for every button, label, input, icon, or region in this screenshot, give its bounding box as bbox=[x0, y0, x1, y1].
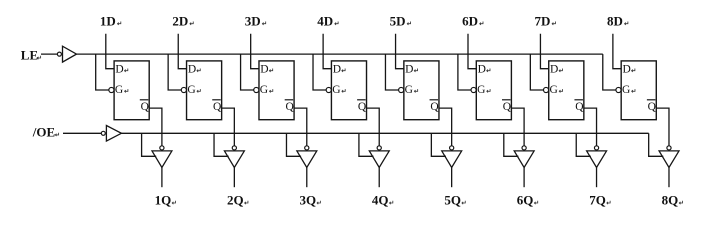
pin label Q-bar (latch 2) bbox=[212, 100, 222, 113]
pin label Q-bar (latch 7) bbox=[574, 100, 584, 113]
svg-text:Q: Q bbox=[430, 101, 439, 113]
tri-state buffer 7 input bubble bbox=[594, 146, 598, 150]
tri-state buffer 3 bbox=[297, 151, 317, 168]
wire /OE net to enable of buffer 3 bbox=[286, 133, 301, 156]
svg-text:Q: Q bbox=[648, 101, 657, 113]
svg-text:D: D bbox=[622, 64, 630, 76]
wire Q-bar of latch 5 to buffer 5 input bbox=[439, 108, 452, 146]
D-latch 7 bbox=[549, 61, 584, 120]
svg-text:5D: 5D bbox=[390, 13, 406, 28]
G input bubble (latch 7) bbox=[543, 87, 548, 92]
D-latch 5 bbox=[404, 61, 439, 120]
wire 3D to D input of latch 3 bbox=[251, 34, 259, 69]
node /OE bbox=[32, 125, 59, 140]
pin label Q-bar (latch 6) bbox=[502, 100, 512, 113]
svg-text:6Q: 6Q bbox=[517, 193, 534, 208]
pin label G (latch 8) bbox=[622, 84, 635, 96]
node 4D bbox=[317, 13, 338, 28]
tri-state buffer 2 input bubble bbox=[232, 146, 236, 150]
wire buffer 2 output to 2Q bbox=[233, 168, 235, 188]
wire LE net bbox=[77, 53, 603, 55]
node 3D bbox=[245, 13, 266, 28]
svg-text:D: D bbox=[405, 64, 413, 76]
wire LE net to G input of latch 8 bbox=[603, 54, 616, 90]
svg-text:7D: 7D bbox=[535, 13, 551, 28]
wire /OE net to enable of buffer 6 bbox=[504, 133, 519, 156]
G input bubble (latch 1) bbox=[109, 87, 114, 92]
pin label Q-bar (latch 3) bbox=[285, 100, 295, 113]
wire buffer 5 output to 5Q bbox=[451, 168, 453, 188]
tri-state buffer 4 bbox=[369, 151, 389, 168]
wire /OE net to enable of buffer 5 bbox=[431, 133, 446, 156]
svg-text:4Q: 4Q bbox=[372, 193, 389, 208]
tri-state buffer 6 bbox=[514, 151, 534, 168]
svg-text:LE: LE bbox=[21, 48, 38, 63]
node 3Q bbox=[299, 193, 320, 208]
node 1D bbox=[100, 13, 121, 28]
node 2Q bbox=[227, 193, 248, 208]
svg-text:G: G bbox=[477, 84, 485, 96]
svg-text:3Q: 3Q bbox=[299, 193, 316, 208]
wire LE net to G input of latch 5 bbox=[385, 54, 398, 90]
pin label D (latch 8) bbox=[622, 64, 634, 76]
wire LE net to G input of latch 1 bbox=[96, 54, 109, 90]
wire /OE net to enable of buffer 7 bbox=[576, 133, 591, 156]
tri-state buffer 8 input bubble bbox=[667, 146, 671, 150]
wire LE net to G input of latch 2 bbox=[168, 54, 181, 90]
svg-text:D: D bbox=[188, 64, 196, 76]
tri-state buffer 4 input bubble bbox=[377, 146, 381, 150]
wire Q-bar of latch 3 to buffer 3 input bbox=[294, 108, 307, 146]
node 6D bbox=[462, 13, 483, 28]
pin label D (latch 5) bbox=[405, 64, 417, 76]
wire LE net to G input of latch 6 bbox=[458, 54, 471, 90]
svg-text:Q: Q bbox=[141, 101, 150, 113]
G input bubble (latch 6) bbox=[471, 87, 476, 92]
G input bubble (latch 3) bbox=[254, 87, 259, 92]
D-latch 8 bbox=[621, 61, 656, 120]
wire /OE net bbox=[121, 132, 648, 134]
G input bubble (latch 8) bbox=[616, 87, 621, 92]
svg-text:G: G bbox=[187, 84, 195, 96]
pin label G (latch 1) bbox=[115, 84, 128, 96]
wire 7D to D input of latch 7 bbox=[540, 34, 548, 69]
tri-state buffer 1 input bubble bbox=[160, 146, 164, 150]
wire Q-bar of latch 7 to buffer 7 input bbox=[584, 108, 597, 146]
pin label Q-bar (latch 5) bbox=[430, 100, 440, 113]
svg-text:5Q: 5Q bbox=[444, 193, 461, 208]
wire buffer 8 output to 8Q bbox=[668, 168, 670, 188]
wire LE label to buffer bbox=[41, 53, 57, 55]
svg-text:D: D bbox=[115, 64, 123, 76]
node 5D bbox=[390, 13, 411, 28]
wire 2D to D input of latch 2 bbox=[178, 34, 186, 69]
tri-state buffer 7 bbox=[587, 151, 607, 168]
wire LE net to G input of latch 3 bbox=[241, 54, 254, 90]
pin label D (latch 3) bbox=[260, 64, 272, 76]
pin label G (latch 3) bbox=[260, 84, 273, 96]
svg-text:G: G bbox=[115, 84, 123, 96]
node 2D bbox=[172, 13, 193, 28]
wire buffer 7 output to 7Q bbox=[596, 168, 598, 188]
node 7Q bbox=[589, 193, 610, 208]
wire LE net to G input of latch 4 bbox=[313, 54, 326, 90]
G input bubble (latch 5) bbox=[399, 87, 404, 92]
svg-text:4D: 4D bbox=[317, 13, 333, 28]
svg-text:8Q: 8Q bbox=[662, 193, 679, 208]
D-latch 2 bbox=[187, 61, 222, 120]
D-latch 6 bbox=[476, 61, 511, 120]
svg-text:/OE: /OE bbox=[32, 125, 55, 140]
svg-text:G: G bbox=[622, 84, 630, 96]
wire buffer 1 output to 1Q bbox=[161, 168, 163, 188]
pin label D (latch 4) bbox=[333, 64, 345, 76]
pin label G (latch 7) bbox=[550, 84, 563, 96]
svg-text:G: G bbox=[332, 84, 340, 96]
buffer /OE bbox=[106, 126, 121, 142]
svg-text:D: D bbox=[478, 64, 486, 76]
wire 5D to D input of latch 5 bbox=[396, 34, 404, 69]
svg-text:2D: 2D bbox=[172, 13, 188, 28]
wire buffer 3 output to 3Q bbox=[306, 168, 308, 188]
D-latch 4 bbox=[331, 61, 366, 120]
node 8Q bbox=[662, 193, 683, 208]
tri-state buffer 2 bbox=[224, 151, 244, 168]
svg-text:G: G bbox=[550, 84, 558, 96]
wire buffer 4 output to 4Q bbox=[378, 168, 380, 188]
svg-text:Q: Q bbox=[503, 101, 512, 113]
tri-state buffer 3 input bubble bbox=[305, 146, 309, 150]
G input bubble (latch 2) bbox=[181, 87, 186, 92]
svg-text:7Q: 7Q bbox=[589, 193, 606, 208]
node 4Q bbox=[372, 193, 393, 208]
wire 6D to D input of latch 6 bbox=[468, 34, 476, 69]
svg-text:D: D bbox=[260, 64, 268, 76]
svg-text:G: G bbox=[405, 84, 413, 96]
node 7D bbox=[535, 13, 556, 28]
wire /OE net to enable of buffer 4 bbox=[359, 133, 374, 156]
svg-text:Q: Q bbox=[285, 101, 294, 113]
svg-text:6D: 6D bbox=[462, 13, 478, 28]
wire /OE net to enable of buffer 2 bbox=[214, 133, 229, 156]
G input bubble (latch 4) bbox=[326, 87, 331, 92]
wire LE net to G input of latch 7 bbox=[530, 54, 543, 90]
svg-text:1Q: 1Q bbox=[155, 193, 172, 208]
node 5Q bbox=[444, 193, 465, 208]
tri-state buffer 6 input bubble bbox=[522, 146, 526, 150]
node LE bbox=[21, 48, 41, 63]
svg-text:Q: Q bbox=[358, 101, 367, 113]
svg-text:G: G bbox=[260, 84, 268, 96]
wire Q-bar of latch 1 to buffer 1 input bbox=[149, 108, 162, 146]
wire buffer 6 output to 6Q bbox=[523, 168, 525, 188]
wire Q-bar of latch 2 to buffer 2 input bbox=[222, 108, 235, 146]
svg-text:2Q: 2Q bbox=[227, 193, 244, 208]
node 1Q bbox=[155, 193, 176, 208]
tri-state buffer 5 bbox=[442, 151, 462, 168]
buffer /OE input bubble bbox=[101, 131, 105, 135]
svg-text:Q: Q bbox=[575, 101, 584, 113]
buffer LE input bubble bbox=[57, 52, 61, 56]
svg-text:3D: 3D bbox=[245, 13, 261, 28]
svg-text:Q: Q bbox=[213, 101, 222, 113]
wire /OE label to buffer bbox=[63, 132, 101, 134]
svg-text:D: D bbox=[333, 64, 341, 76]
wire 8D to D input of latch 8 bbox=[613, 34, 621, 69]
wire Q-bar of latch 6 to buffer 6 input bbox=[511, 108, 524, 146]
wire 4D to D input of latch 4 bbox=[323, 34, 331, 69]
node 8D bbox=[607, 13, 628, 28]
pin label D (latch 6) bbox=[478, 64, 490, 76]
wire /OE net to enable of buffer 8 bbox=[649, 133, 664, 156]
node 6Q bbox=[517, 193, 538, 208]
pin label Q-bar (latch 8) bbox=[647, 100, 657, 113]
pin label G (latch 4) bbox=[332, 84, 345, 96]
pin label G (latch 2) bbox=[187, 84, 200, 96]
pin label D (latch 1) bbox=[115, 64, 127, 76]
wire 1D to D input of latch 1 bbox=[106, 34, 114, 69]
D-latch 3 bbox=[259, 61, 294, 120]
pin label D (latch 7) bbox=[550, 64, 562, 76]
wire Q-bar of latch 8 to buffer 8 input bbox=[656, 108, 669, 146]
pin label Q-bar (latch 1) bbox=[140, 100, 150, 113]
pin label G (latch 5) bbox=[405, 84, 418, 96]
svg-text:8D: 8D bbox=[607, 13, 623, 28]
D-latch 1 bbox=[114, 61, 149, 120]
tri-state buffer 8 bbox=[659, 151, 679, 168]
tri-state buffer 5 input bubble bbox=[450, 146, 454, 150]
wire Q-bar of latch 4 to buffer 4 input bbox=[367, 108, 380, 146]
wire /OE net to enable of buffer 1 bbox=[142, 133, 157, 156]
pin label G (latch 6) bbox=[477, 84, 490, 96]
pin label Q-bar (latch 4) bbox=[357, 100, 367, 113]
pin label D (latch 2) bbox=[188, 64, 200, 76]
svg-text:1D: 1D bbox=[100, 13, 116, 28]
tri-state buffer 1 bbox=[152, 151, 172, 168]
buffer LE bbox=[63, 46, 77, 62]
svg-text:D: D bbox=[550, 64, 558, 76]
